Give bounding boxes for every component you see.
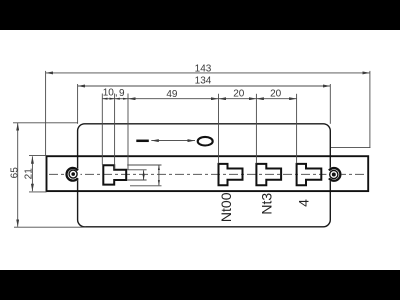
svg-text:65: 65 bbox=[10, 167, 21, 179]
slot1 tall dim ext top bbox=[127, 164, 161, 166]
slot1 tall dim ext bottom bbox=[130, 185, 162, 187]
svg-text:20: 20 bbox=[233, 89, 245, 100]
svg-text:134: 134 bbox=[195, 76, 212, 87]
extension line left of 143 bbox=[45, 71, 47, 155]
extension line x=128 bbox=[127, 94, 129, 170]
top letterbox bar bbox=[0, 0, 400, 30]
dimension 49 line bbox=[128, 98, 219, 100]
dimension 143 line bbox=[46, 72, 370, 74]
extension line 134 right (plate edge up) bbox=[329, 84, 331, 124]
right eyelet mask bbox=[326, 167, 341, 182]
extension line x=296.6 bbox=[296, 94, 298, 164]
extension line 65 bottom bbox=[14, 226, 86, 228]
svg-text:143: 143 bbox=[195, 63, 212, 74]
extension line 65 top bbox=[13, 122, 78, 124]
T-slot C profile (4) bbox=[297, 164, 322, 185]
slot1 narrow dim ext top bbox=[127, 169, 146, 171]
right eyelet inner ring bbox=[330, 170, 338, 178]
left eyelet inner ring bbox=[69, 170, 77, 178]
dimension 20 second line bbox=[256, 98, 296, 100]
extension line 21 bottom bbox=[29, 191, 47, 193]
plate outline (rounded rectangle body) bbox=[78, 124, 331, 227]
extension line right of 143 bbox=[369, 71, 371, 148]
extension line 21 top bbox=[29, 154, 47, 156]
zero-point icon: double arrow bbox=[151, 140, 195, 142]
extension line x=102.3 bbox=[101, 94, 103, 165]
right eyelet center dot bbox=[332, 173, 336, 177]
T-slot A profile (Nt00) bbox=[219, 164, 243, 185]
dimension 10 line bbox=[102, 98, 114, 100]
bar/strip outline (full-length slide bar) bbox=[47, 156, 369, 191]
slot1 tall height dim arrows bbox=[158, 165, 160, 185]
svg-text:49: 49 bbox=[166, 89, 178, 100]
zero-point icon: O ellipse bbox=[198, 137, 213, 146]
extension line 134 left (plate edge up) bbox=[77, 84, 79, 124]
left eyelet mask bbox=[65, 167, 80, 182]
extension line x=218.5 bbox=[218, 94, 220, 164]
ledge line right end bbox=[331, 147, 370, 149]
svg-text:Nt00: Nt00 bbox=[218, 192, 234, 222]
slot1 narrow dim ext bottom bbox=[127, 179, 146, 181]
svg-text:20: 20 bbox=[270, 89, 282, 100]
svg-text:21: 21 bbox=[24, 168, 35, 180]
dimension 20 first line bbox=[219, 98, 257, 100]
svg-text:Nt3: Nt3 bbox=[258, 193, 274, 215]
right eyelet outer arc bbox=[329, 168, 340, 181]
extension line x=114.6 bbox=[114, 94, 116, 170]
dimension 65 line bbox=[17, 123, 19, 227]
bottom letterbox bar bbox=[0, 270, 400, 300]
slot1 narrow height dim arrows bbox=[143, 170, 145, 180]
dimension 134 line bbox=[78, 85, 331, 87]
centerline (dash-dot) bbox=[49, 173, 367, 175]
left eyelet center dot bbox=[71, 172, 75, 176]
dimension 21 line bbox=[31, 156, 33, 191]
svg-text:,: , bbox=[115, 88, 118, 99]
svg-text:4: 4 bbox=[296, 199, 312, 207]
zero-point icon: bold tick bbox=[136, 140, 149, 143]
svg-text:9: 9 bbox=[119, 88, 125, 99]
svg-text:10: 10 bbox=[103, 88, 115, 99]
T-slot 1 profile bbox=[103, 165, 126, 184]
left eyelet outer arc bbox=[67, 168, 78, 181]
T-slot B profile (Nt3) bbox=[256, 164, 281, 185]
dimension 9 line bbox=[115, 98, 128, 100]
extension line x=256.4 bbox=[255, 94, 257, 164]
